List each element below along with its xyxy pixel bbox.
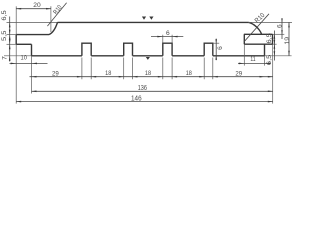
leader R10 right xyxy=(244,14,269,42)
svg-text:20: 20 xyxy=(33,2,41,9)
svg-text:6,5: 6,5 xyxy=(266,54,273,65)
bottom surface segments xyxy=(32,55,265,57)
svg-text:18: 18 xyxy=(145,70,151,77)
svg-text:18: 18 xyxy=(105,70,111,77)
right 6,5 chain arrows xyxy=(274,34,276,39)
dim 11 arrows xyxy=(239,63,245,65)
dim 11 line xyxy=(238,62,271,64)
right edge vertical xyxy=(272,34,274,44)
svg-text:5,5: 5,5 xyxy=(1,30,8,41)
top surface line xyxy=(58,21,249,23)
left chain arrows xyxy=(9,22,11,27)
right tongue bottom xyxy=(244,43,272,45)
bottom level extension left xyxy=(4,55,32,57)
dim 6 right line xyxy=(281,19,283,40)
dim 6 right arrows xyxy=(281,18,283,22)
dim 20 arrows xyxy=(16,8,21,10)
svg-text:29: 29 xyxy=(52,71,59,78)
dim 6 groove depth line xyxy=(215,39,217,61)
bottom chain dim line xyxy=(30,76,273,78)
groove edges extensions down xyxy=(82,58,213,80)
right edge extension down xyxy=(272,44,274,103)
svg-text:136: 136 xyxy=(138,83,147,92)
dim 146 line xyxy=(16,101,273,103)
fillet start extension xyxy=(50,6,52,32)
right ledge extension xyxy=(273,33,285,35)
dimension lines (thin) xyxy=(10,3,290,102)
right notch vertical xyxy=(264,44,266,56)
svg-text:146: 146 xyxy=(131,94,142,103)
groove B xyxy=(124,43,133,56)
dim 136 arrows xyxy=(32,91,37,93)
groove C xyxy=(163,43,172,56)
bottom chain arrows xyxy=(32,76,37,78)
left step extension xyxy=(7,43,17,45)
finish mark triangle bottom xyxy=(146,57,150,60)
left edge extension up xyxy=(15,6,17,34)
right step vertical xyxy=(243,34,245,44)
dim 20 line xyxy=(16,8,51,10)
left flat extension xyxy=(7,34,17,36)
finish mark triangle 2 xyxy=(149,17,153,20)
right tongue bottom extension xyxy=(273,43,277,45)
left edge vertical xyxy=(15,35,17,45)
dimension texts xyxy=(1,2,291,103)
groove A xyxy=(82,43,91,56)
groove D xyxy=(204,43,213,56)
svg-text:10: 10 xyxy=(21,54,28,61)
svg-text:6,5: 6,5 xyxy=(266,33,273,44)
right 6,5 chain dim line xyxy=(273,31,275,61)
left fillet R10 xyxy=(49,22,58,34)
finish mark triangle 1 xyxy=(142,17,146,20)
svg-text:7: 7 xyxy=(1,56,8,60)
right fillet R10 xyxy=(249,22,262,34)
left recessed flat xyxy=(16,34,49,36)
leader R10 left xyxy=(47,3,66,26)
dim 10 line xyxy=(10,62,48,64)
extension lines (thin) xyxy=(4,6,292,103)
svg-text:6: 6 xyxy=(276,24,283,28)
left step horizontal xyxy=(16,43,31,45)
groove C edges extensions up xyxy=(163,35,172,43)
dim 6 depth arrows xyxy=(215,39,217,43)
svg-text:19: 19 xyxy=(284,37,291,45)
dim 146 arrows xyxy=(16,101,21,103)
left step vertical xyxy=(31,44,33,56)
svg-text:18: 18 xyxy=(186,70,192,77)
profile outline group (thick lines) xyxy=(16,22,272,55)
arrowheads xyxy=(9,8,290,103)
svg-text:11: 11 xyxy=(250,56,255,63)
svg-text:6: 6 xyxy=(166,30,170,37)
right step extension down xyxy=(243,44,245,65)
svg-text:29: 29 xyxy=(235,71,242,78)
dim 6 groove width line xyxy=(151,36,183,38)
dim 19 arrows xyxy=(288,22,290,27)
left step down extension xyxy=(31,56,33,94)
groove D depth extension xyxy=(213,42,219,44)
bottom level extension right xyxy=(265,55,292,57)
svg-text:6: 6 xyxy=(217,46,224,50)
svg-text:6,5: 6,5 xyxy=(1,10,8,21)
right ledge xyxy=(244,33,273,35)
right notch extension down xyxy=(264,56,266,66)
dim 136 line xyxy=(32,90,273,92)
dim 10 arrows xyxy=(11,63,17,65)
dim 19 line xyxy=(288,22,290,55)
top level extension line xyxy=(7,21,293,23)
left chain dim line xyxy=(9,17,11,62)
left edge extension down xyxy=(15,44,17,103)
dim 6 width arrows xyxy=(157,36,163,38)
